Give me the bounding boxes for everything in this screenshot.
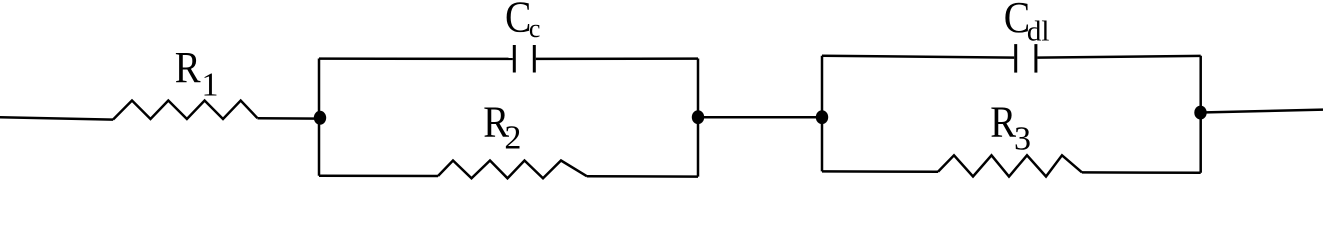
svg-text:R: R bbox=[990, 97, 1016, 146]
label R3 bbox=[990, 97, 1031, 157]
wire node B to node C bbox=[698, 116, 822, 119]
wire parallel block 1 right vertical bbox=[697, 59, 700, 177]
capacitor C_c bbox=[514, 45, 534, 73]
wire Cc branch right bbox=[536, 57, 698, 60]
wire R3 branch right bbox=[1082, 171, 1201, 174]
wire R3 branch left bbox=[822, 170, 938, 173]
wire parallel block 2 left vertical bbox=[821, 56, 824, 172]
label R1 bbox=[175, 43, 219, 104]
wire R1 to node A bbox=[258, 117, 321, 120]
svg-text:R: R bbox=[175, 43, 201, 92]
label Cdl bbox=[1004, 0, 1050, 48]
wire parallel block 2 right vertical bbox=[1199, 56, 1202, 173]
label R2 bbox=[483, 97, 521, 156]
node D bbox=[1194, 106, 1206, 120]
capacitor C_dl bbox=[1016, 44, 1036, 73]
wire Cc branch left bbox=[319, 57, 513, 60]
node B bbox=[692, 110, 704, 124]
label Cc bbox=[505, 0, 540, 43]
svg-text:c: c bbox=[529, 14, 541, 43]
svg-text:3: 3 bbox=[1014, 121, 1031, 158]
wire parallel block 1 left vertical bbox=[318, 59, 321, 176]
svg-text:dl: dl bbox=[1027, 16, 1050, 48]
node A bbox=[314, 111, 326, 125]
wire left lead bbox=[0, 117, 113, 119]
svg-text:C: C bbox=[505, 0, 531, 42]
resistor R2 bbox=[438, 161, 587, 179]
wire right lead bbox=[1201, 110, 1323, 113]
wire Cdl branch left bbox=[822, 56, 1014, 58]
svg-text:2: 2 bbox=[504, 120, 521, 157]
resistor R1 bbox=[113, 101, 258, 120]
svg-text:1: 1 bbox=[202, 67, 219, 104]
resistor R3 bbox=[938, 155, 1082, 176]
wire R2 branch left bbox=[319, 175, 438, 178]
node C bbox=[816, 110, 828, 124]
wire R2 branch right bbox=[587, 175, 698, 178]
wire Cdl branch right bbox=[1037, 56, 1200, 58]
